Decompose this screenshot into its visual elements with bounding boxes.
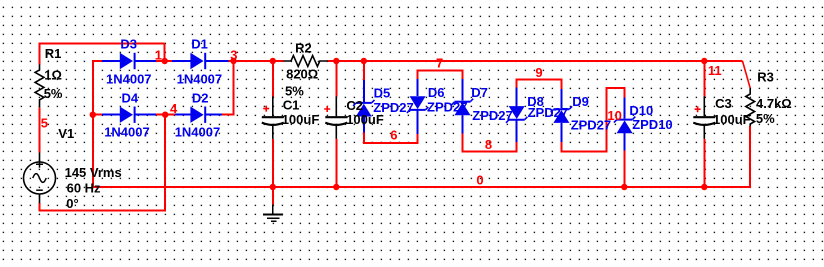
svg-text:0: 0 <box>476 172 483 187</box>
svg-text:1N4007: 1N4007 <box>177 72 223 87</box>
svg-text:ZPD27: ZPD27 <box>373 100 413 115</box>
svg-text:D2: D2 <box>192 91 209 106</box>
svg-text:D9: D9 <box>572 94 589 109</box>
svg-text:C3: C3 <box>715 96 732 111</box>
svg-text:C1: C1 <box>283 98 300 113</box>
svg-text:60 Hz: 60 Hz <box>67 181 101 196</box>
svg-text:R2: R2 <box>295 41 312 56</box>
svg-text:11: 11 <box>708 63 722 78</box>
svg-text:C2: C2 <box>346 98 363 113</box>
svg-text:145 Vrms: 145 Vrms <box>65 165 122 180</box>
svg-text:ZPD27: ZPD27 <box>528 105 568 120</box>
svg-text:R3: R3 <box>757 70 774 85</box>
svg-text:ZPD27: ZPD27 <box>571 117 611 132</box>
svg-text:7: 7 <box>436 55 443 70</box>
svg-text:100uF: 100uF <box>282 112 320 127</box>
svg-text:6: 6 <box>390 128 397 143</box>
svg-text:3: 3 <box>230 48 237 63</box>
svg-text:4: 4 <box>170 101 178 116</box>
svg-text:D6: D6 <box>428 85 445 100</box>
svg-text:1Ω: 1Ω <box>44 68 62 83</box>
svg-text:1N4007: 1N4007 <box>104 125 150 140</box>
svg-text:8: 8 <box>485 137 492 152</box>
svg-text:5%: 5% <box>285 83 304 98</box>
svg-text:9: 9 <box>535 65 542 80</box>
svg-text:5%: 5% <box>756 111 775 126</box>
svg-text:V1: V1 <box>58 126 74 141</box>
svg-text:R1: R1 <box>45 46 62 61</box>
svg-text:1N4007: 1N4007 <box>106 72 152 87</box>
svg-text:ZPD10: ZPD10 <box>632 117 672 132</box>
svg-text:D3: D3 <box>120 37 137 52</box>
svg-text:0°: 0° <box>66 196 78 211</box>
svg-text:5%: 5% <box>44 86 63 101</box>
svg-text:100uF: 100uF <box>713 112 751 127</box>
svg-text:ZPD27: ZPD27 <box>472 108 512 123</box>
svg-text:10: 10 <box>607 108 621 123</box>
svg-text:D4: D4 <box>122 91 139 106</box>
svg-text:4.7kΩ: 4.7kΩ <box>756 96 792 111</box>
svg-text:D5: D5 <box>374 86 391 101</box>
svg-text:5: 5 <box>41 115 48 130</box>
svg-text:D1: D1 <box>191 36 208 51</box>
svg-text:820Ω: 820Ω <box>286 67 318 82</box>
svg-text:1N4007: 1N4007 <box>175 125 221 140</box>
svg-text:D10: D10 <box>629 103 653 118</box>
svg-text:1: 1 <box>155 48 162 63</box>
svg-text:D7: D7 <box>471 85 488 100</box>
svg-text:ZPD27: ZPD27 <box>427 100 467 115</box>
